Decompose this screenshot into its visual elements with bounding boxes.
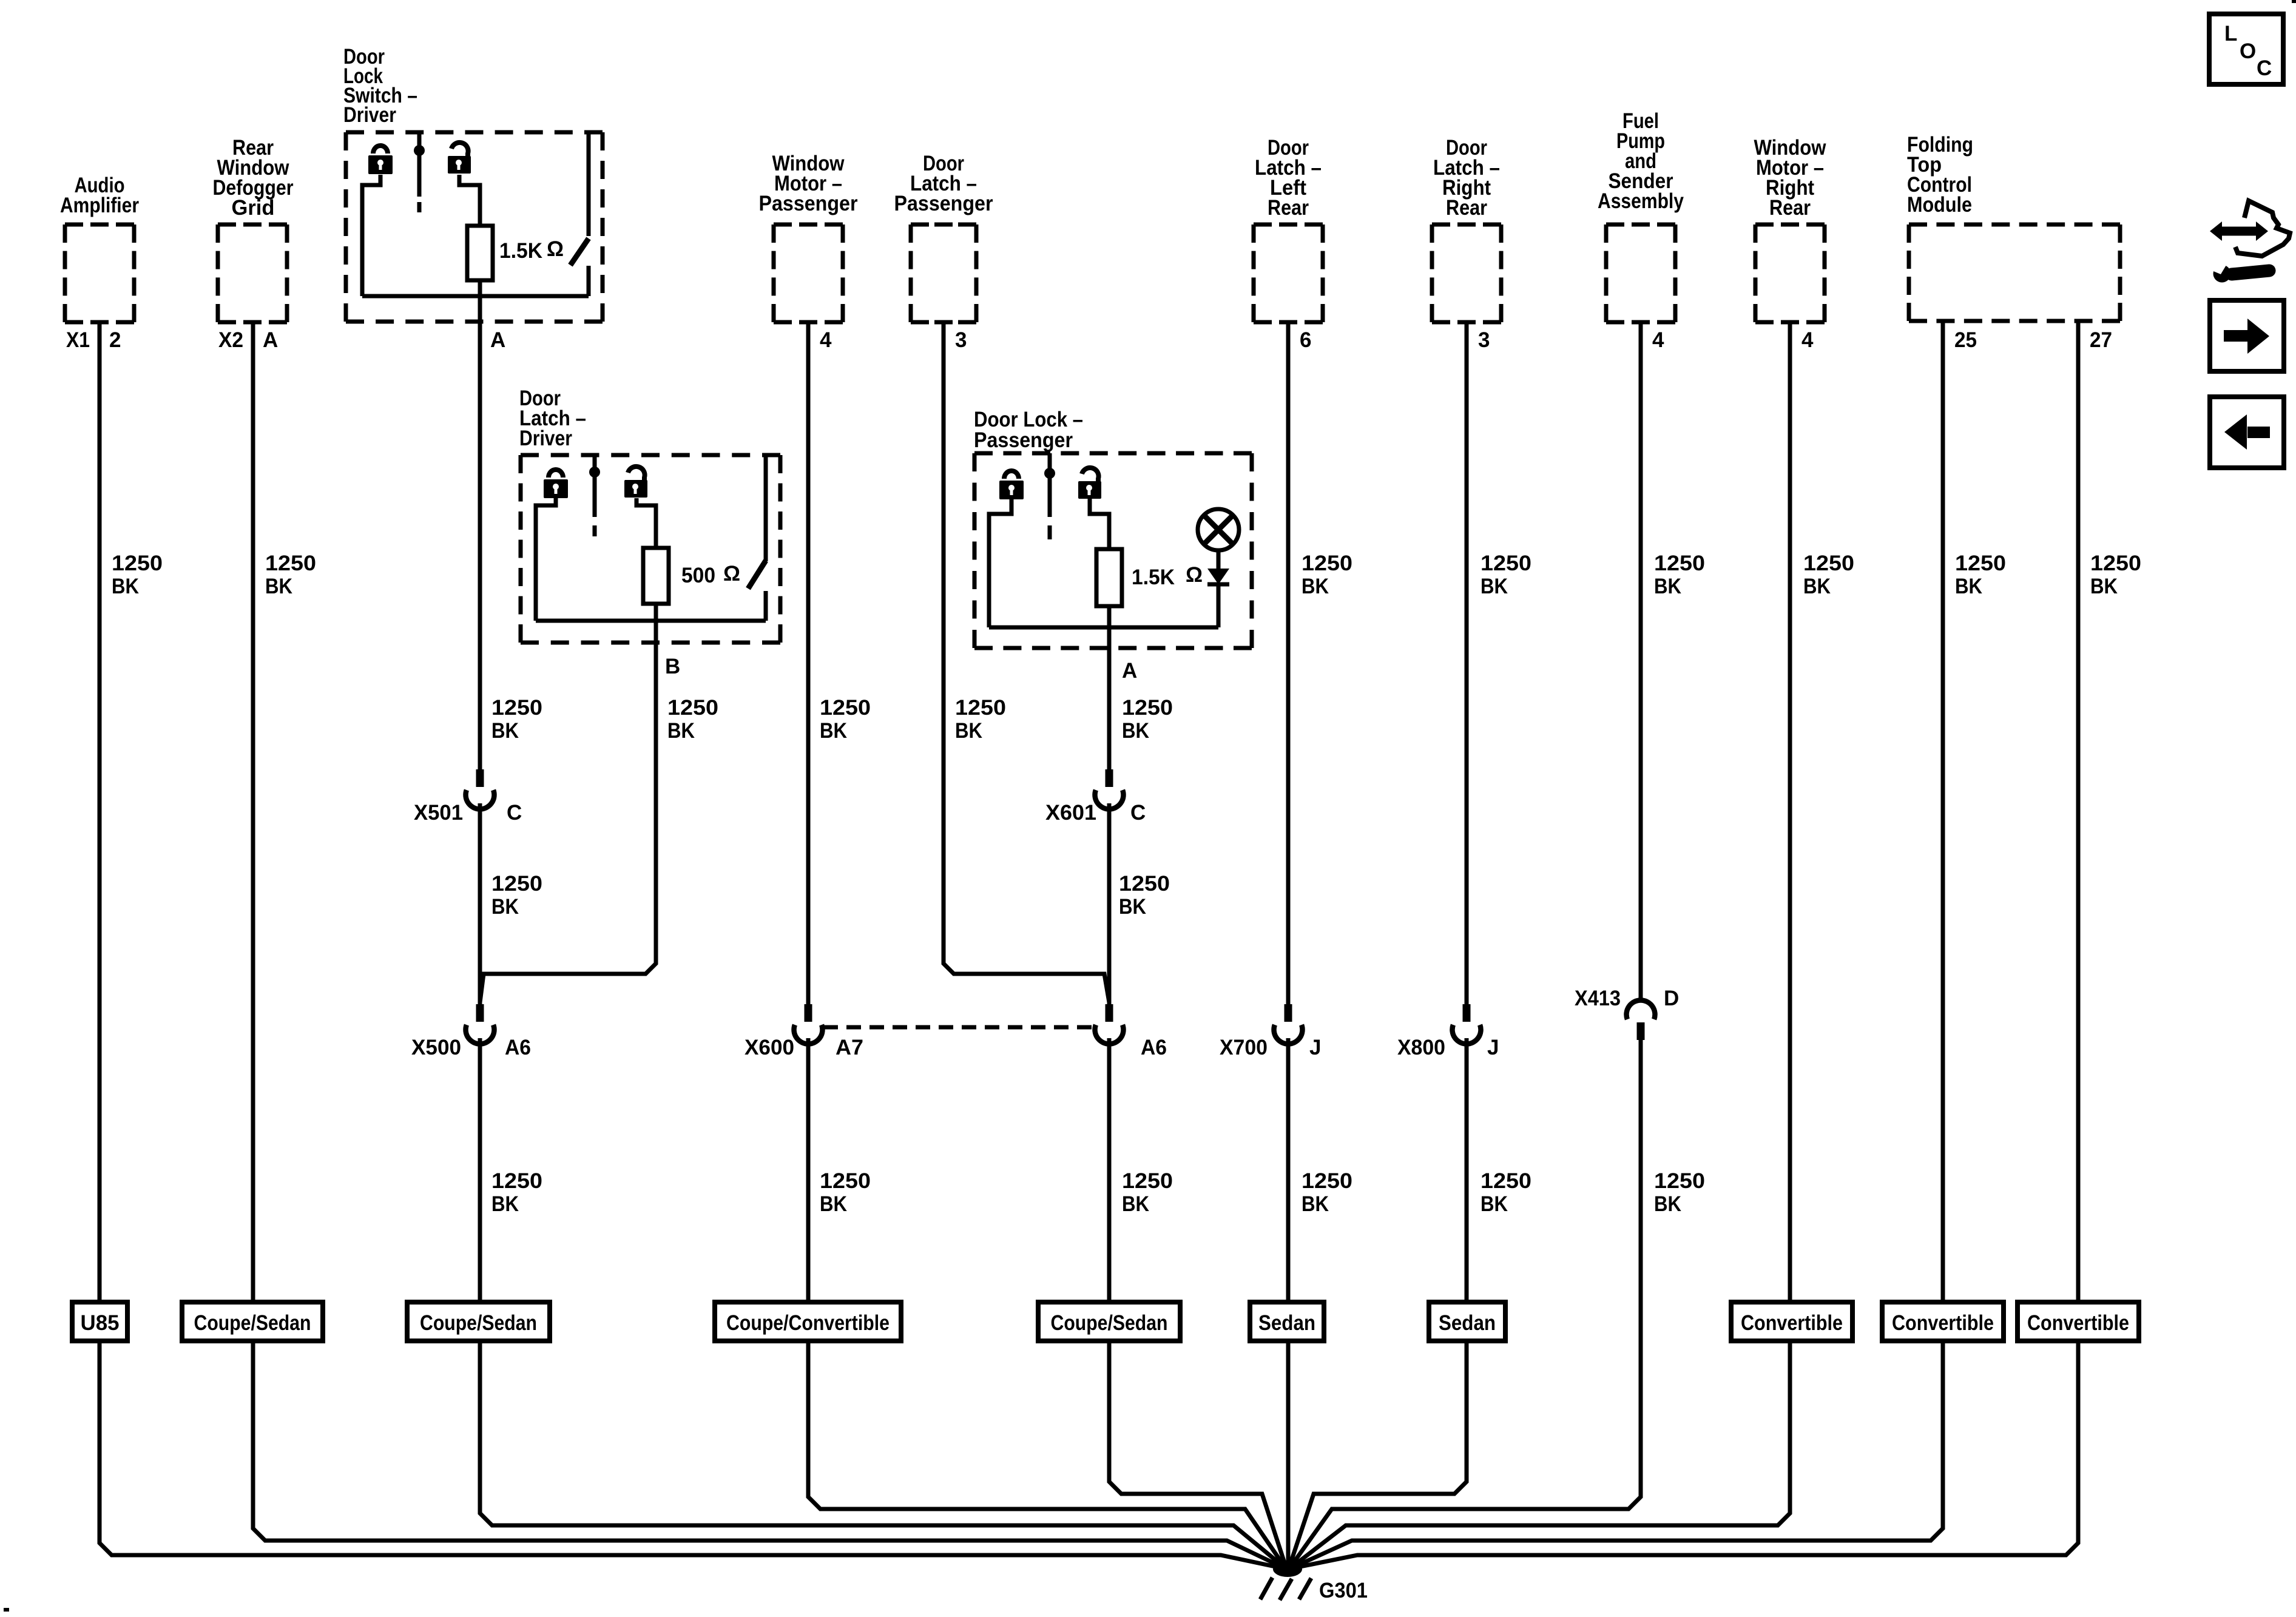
svg-text:Sedan: Sedan bbox=[1439, 1311, 1496, 1335]
inline connector X700 pin J bbox=[1274, 1004, 1303, 1044]
connector box: Fuel Pump and Sender Assembly bbox=[1598, 109, 1684, 322]
svg-text:1250: 1250 bbox=[667, 696, 718, 720]
connector box: Door Latch - Right Rear bbox=[1432, 136, 1501, 322]
connector label X500 A6 bbox=[411, 1036, 531, 1059]
connector label X800 J bbox=[1397, 1036, 1499, 1059]
wire: unlock contact branch to resistor bbox=[1090, 498, 1109, 549]
svg-text:X2: X2 bbox=[218, 328, 243, 352]
resistor 500 ohm bbox=[643, 548, 669, 604]
wire label 1250 BK (below X500) bbox=[491, 1169, 542, 1216]
value label 1.5K ohm bbox=[499, 237, 564, 263]
page corner mark bbox=[4, 1608, 9, 1612]
switch blade (open) bbox=[570, 132, 589, 296]
svg-text:BK: BK bbox=[491, 1192, 519, 1216]
wire label 1250 BK (Door Lock Passenger) bbox=[1122, 696, 1173, 743]
variant box Coupe/Sedan (door lock passenger) bbox=[1038, 1302, 1180, 1341]
svg-text:Coupe/Sedan: Coupe/Sedan bbox=[420, 1311, 537, 1335]
svg-text:BK: BK bbox=[667, 719, 695, 743]
svg-text:U85: U85 bbox=[81, 1311, 120, 1335]
variant box Sedan (door latch left rear) bbox=[1250, 1302, 1324, 1341]
svg-text:27: 27 bbox=[2090, 328, 2112, 352]
wire: Door Latch Right Rear pin 3 through X800 to G301 (1250 BK) bbox=[1465, 322, 1469, 1004]
connector box: Audio Amplifier bbox=[60, 174, 139, 322]
connector label X600 A7 bbox=[745, 1036, 863, 1059]
component box: Door Lock - Passenger bbox=[974, 408, 1252, 648]
svg-text:A: A bbox=[263, 328, 278, 352]
wire: Rear Window Defogger Grid pin A to G301 ground bus (1250 BK) bbox=[253, 322, 1285, 1568]
resistor 1.5K ohm bbox=[1096, 549, 1122, 606]
wire: Door Lock Switch Driver pin A down through X501 and X500 to G301 (1250 BK) bbox=[478, 280, 482, 769]
svg-text:1250: 1250 bbox=[1481, 552, 1531, 575]
svg-text:O: O bbox=[2240, 39, 2256, 63]
connector box: Window Motor - Passenger bbox=[759, 152, 858, 322]
svg-text:3: 3 bbox=[955, 328, 967, 352]
variant box Coupe/Convertible (window motor passenger) bbox=[715, 1302, 901, 1341]
svg-text:BK: BK bbox=[955, 719, 982, 743]
wire: lock contact branch bbox=[536, 498, 556, 621]
svg-text:B: B bbox=[665, 655, 680, 678]
svg-text:X600: X600 bbox=[745, 1036, 794, 1059]
svg-text:1250: 1250 bbox=[2090, 552, 2141, 575]
wire label 1250 BK (below X601) bbox=[1119, 872, 1170, 919]
svg-text:500: 500 bbox=[681, 564, 715, 587]
svg-text:1250: 1250 bbox=[491, 872, 542, 896]
wire: internal bottom bus bbox=[536, 619, 766, 623]
svg-text:Convertible: Convertible bbox=[1892, 1311, 1994, 1335]
svg-text:A6: A6 bbox=[1141, 1036, 1167, 1059]
svg-text:BK: BK bbox=[1302, 575, 1329, 598]
pin label X2 A bbox=[218, 328, 278, 352]
svg-text:X1: X1 bbox=[66, 328, 90, 352]
svg-text:G301: G301 bbox=[1319, 1579, 1368, 1602]
wire label 1250 BK (below X600) bbox=[820, 1169, 871, 1216]
svg-text:Driver: Driver bbox=[343, 103, 396, 127]
svg-text:D: D bbox=[1664, 987, 1679, 1010]
svg-text:3: 3 bbox=[1478, 328, 1490, 352]
svg-text:BK: BK bbox=[2090, 575, 2118, 598]
inline connector X800 pin J bbox=[1452, 1004, 1481, 1044]
svg-text:1250: 1250 bbox=[820, 696, 871, 720]
backward arrow box bbox=[2210, 397, 2284, 468]
svg-text:Ω: Ω bbox=[723, 562, 740, 586]
svg-text:A: A bbox=[490, 328, 505, 352]
svg-text:BK: BK bbox=[1654, 1192, 1681, 1216]
wire: Door Latch Passenger pin 3 joining X601 A6 (1250 BK) bbox=[944, 322, 1109, 1002]
unlock symbol (open padlock) bbox=[448, 143, 471, 174]
svg-text:Ω: Ω bbox=[547, 237, 564, 261]
wire: internal bottom bus bbox=[989, 626, 1218, 630]
variant box Convertible (window motor right rear) bbox=[1731, 1302, 1852, 1341]
wire label 1250 BK (Door Latch Passenger) bbox=[955, 696, 1006, 743]
svg-text:BK: BK bbox=[1119, 895, 1146, 919]
svg-text:Convertible: Convertible bbox=[1741, 1311, 1843, 1335]
switch common stem with junction dot bbox=[589, 455, 600, 536]
wire label 1250 BK (below X501) bbox=[491, 872, 542, 919]
svg-text:BK: BK bbox=[1122, 719, 1149, 743]
svg-text:X700: X700 bbox=[1220, 1036, 1268, 1059]
switch blade (open) bbox=[748, 455, 766, 621]
switch common stem with junction dot bbox=[1044, 453, 1055, 539]
connector label X601 C bbox=[1045, 801, 1146, 825]
connector box: Folding Top Control Module bbox=[1907, 133, 2120, 321]
svg-text:4: 4 bbox=[1801, 328, 1814, 352]
wire label 1250 BK (Folding Top pin 25) bbox=[1955, 552, 2006, 598]
svg-text:Coupe/Convertible: Coupe/Convertible bbox=[726, 1311, 890, 1335]
inline connector X601 pin C bbox=[1095, 769, 1124, 809]
variant box Coupe/Sedan (door lock switch driver) bbox=[407, 1302, 550, 1341]
svg-text:Rear: Rear bbox=[1446, 196, 1487, 220]
wire label 1250 BK (Window Motor Passenger) bbox=[820, 696, 871, 743]
svg-text:C: C bbox=[507, 801, 522, 825]
diode bbox=[1207, 550, 1229, 627]
wire label 1250 BK (Rear Window Defogger Grid) bbox=[265, 552, 316, 598]
inline connector X500 pin A6 bbox=[466, 1004, 495, 1044]
wire label 1250 BK (Folding Top pin 27) bbox=[2090, 552, 2141, 598]
body repair icon: double arrow, panel outline, wrench bbox=[2210, 201, 2290, 283]
svg-text:Rear: Rear bbox=[1769, 196, 1811, 220]
connector label X501 C bbox=[414, 801, 522, 825]
lock symbol (closed padlock) bbox=[999, 471, 1024, 499]
svg-text:Assembly: Assembly bbox=[1598, 189, 1684, 213]
svg-text:X601: X601 bbox=[1045, 801, 1096, 825]
svg-text:Rear: Rear bbox=[1268, 196, 1309, 220]
svg-text:BK: BK bbox=[1481, 575, 1508, 598]
connector box: Rear Window Defogger Grid bbox=[213, 136, 294, 322]
svg-text:1250: 1250 bbox=[1119, 872, 1170, 896]
svg-text:BK: BK bbox=[1122, 1192, 1149, 1216]
inline connector X600 pin A7 bbox=[794, 1004, 822, 1044]
indicator lamp bbox=[1198, 509, 1239, 550]
svg-text:1250: 1250 bbox=[491, 696, 542, 720]
connector label X700 J bbox=[1220, 1036, 1321, 1059]
variant box Sedan (door latch right rear) bbox=[1429, 1302, 1505, 1341]
svg-text:A6: A6 bbox=[505, 1036, 531, 1059]
variant box U85 bbox=[72, 1302, 127, 1341]
variant box Convertible (folding top pin 27) bbox=[2017, 1302, 2139, 1341]
svg-text:Amplifier: Amplifier bbox=[60, 194, 139, 217]
svg-text:Sedan: Sedan bbox=[1258, 1311, 1315, 1335]
wire label 1250 BK (below A6) bbox=[1122, 1169, 1173, 1216]
wire: Window Motor Passenger pin 4 through X600 to G301 (1250 BK) bbox=[806, 322, 811, 1004]
wire: Door Lock Passenger pin A through X601 to G301 (1250 BK) bbox=[1107, 606, 1112, 769]
wire: Audio Amplifier pin 2 to G301 ground bus (1250 BK) bbox=[100, 322, 1284, 1568]
svg-text:BK: BK bbox=[1955, 575, 1982, 598]
pin label X1 2 bbox=[66, 328, 121, 352]
svg-text:J: J bbox=[1309, 1036, 1321, 1059]
unlock symbol (open padlock) bbox=[1078, 468, 1101, 499]
wire label 1250 BK (Door Latch Left Rear) bbox=[1302, 552, 1352, 598]
svg-text:1250: 1250 bbox=[112, 552, 163, 575]
svg-text:BK: BK bbox=[112, 575, 139, 598]
wire label 1250 BK (Door Lock Switch Driver) bbox=[491, 696, 542, 743]
connector box: Door Latch - Left Rear bbox=[1254, 136, 1323, 322]
svg-text:1250: 1250 bbox=[491, 1169, 542, 1193]
svg-text:4: 4 bbox=[820, 328, 832, 352]
svg-text:1.5K: 1.5K bbox=[1132, 565, 1175, 589]
LOC reference box bbox=[2209, 14, 2283, 84]
wire: Folding Top Control Module pin 27 to G301 (1250 BK) bbox=[1291, 322, 2078, 1568]
resistor 1.5K ohm bbox=[467, 226, 493, 280]
inline connector (unnamed) pin A6 bbox=[1095, 1004, 1123, 1044]
svg-text:J: J bbox=[1487, 1036, 1499, 1059]
svg-text:Passenger: Passenger bbox=[894, 192, 993, 215]
svg-text:BK: BK bbox=[820, 719, 847, 743]
svg-text:Grid: Grid bbox=[232, 196, 275, 220]
wire label 1250 BK (below X800) bbox=[1481, 1169, 1531, 1216]
svg-text:1250: 1250 bbox=[1481, 1169, 1531, 1193]
ground splice blob G301 bbox=[1273, 1561, 1302, 1577]
svg-text:1.5K: 1.5K bbox=[499, 239, 542, 263]
ground hatch strokes bbox=[1260, 1578, 1311, 1600]
wire: internal bottom bus bbox=[362, 294, 589, 299]
svg-text:Passenger: Passenger bbox=[974, 428, 1073, 452]
svg-text:BK: BK bbox=[1803, 575, 1831, 598]
inline connector X413 pin D (flipped) bbox=[1627, 1001, 1655, 1040]
wire: unlock contact branch to resistor bbox=[636, 498, 656, 548]
svg-text:Driver: Driver bbox=[519, 427, 572, 450]
component box: Door Lock Switch - Driver bbox=[343, 45, 603, 322]
inline connector X501 pin C bbox=[466, 769, 495, 809]
svg-text:4: 4 bbox=[1652, 328, 1664, 352]
svg-text:1250: 1250 bbox=[955, 696, 1006, 720]
svg-text:Coupe/Sedan: Coupe/Sedan bbox=[1051, 1311, 1168, 1335]
svg-text:25: 25 bbox=[1954, 328, 1977, 352]
wire label 1250 BK (below X700) bbox=[1302, 1169, 1352, 1216]
svg-text:BK: BK bbox=[820, 1192, 847, 1216]
svg-text:X501: X501 bbox=[414, 801, 463, 825]
svg-text:Ω: Ω bbox=[1186, 563, 1203, 587]
svg-text:Coupe/Sedan: Coupe/Sedan bbox=[194, 1311, 311, 1335]
svg-text:Module: Module bbox=[1907, 193, 1972, 217]
lock symbol (closed padlock) bbox=[368, 146, 393, 174]
wire label 1250 BK (Door Latch Driver) bbox=[667, 696, 718, 743]
svg-text:2: 2 bbox=[109, 328, 121, 352]
svg-text:BK: BK bbox=[265, 575, 292, 598]
wire label 1250 BK (below X413) bbox=[1654, 1169, 1705, 1216]
variant box Convertible (folding top pin 25) bbox=[1882, 1302, 2004, 1341]
wire: Window Motor Right Rear pin 4 to G301 (1250 BK) bbox=[1290, 322, 1790, 1568]
wire label 1250 BK (Window Motor Right Rear) bbox=[1803, 552, 1854, 598]
wire label 1250 BK (Fuel Pump) bbox=[1654, 552, 1705, 598]
unlock symbol (open padlock) bbox=[624, 467, 647, 498]
svg-text:A7: A7 bbox=[836, 1036, 863, 1059]
svg-text:Convertible: Convertible bbox=[2027, 1311, 2129, 1335]
value label 500 ohm bbox=[681, 562, 740, 587]
svg-text:BK: BK bbox=[1481, 1192, 1508, 1216]
wire: Door Latch Left Rear pin 6 through X700 straight to G301 (1250 BK) bbox=[1286, 322, 1291, 1004]
svg-text:BK: BK bbox=[491, 895, 519, 919]
svg-text:C: C bbox=[1130, 801, 1146, 825]
svg-text:X500: X500 bbox=[411, 1036, 461, 1059]
switch common stem with junction dot bbox=[414, 132, 425, 212]
svg-text:Passenger: Passenger bbox=[759, 192, 858, 215]
variant box Coupe/Sedan (defogger) bbox=[182, 1302, 323, 1341]
svg-text:1250: 1250 bbox=[820, 1169, 871, 1193]
svg-text:A: A bbox=[1122, 659, 1137, 683]
svg-text:6: 6 bbox=[1300, 328, 1311, 352]
svg-text:1250: 1250 bbox=[1803, 552, 1854, 575]
svg-text:BK: BK bbox=[1654, 575, 1681, 598]
value label 1.5K ohm bbox=[1132, 563, 1203, 589]
svg-text:X800: X800 bbox=[1397, 1036, 1445, 1059]
svg-text:1250: 1250 bbox=[265, 552, 316, 575]
dashed link wire between X600 and A6 bbox=[823, 1025, 1093, 1030]
page corner speck top right bbox=[2292, 0, 2296, 3]
wire label 1250 BK (Audio Amplifier) bbox=[112, 552, 163, 598]
svg-text:1250: 1250 bbox=[1302, 552, 1352, 575]
svg-text:1250: 1250 bbox=[1654, 1169, 1705, 1193]
svg-text:1250: 1250 bbox=[1654, 552, 1705, 575]
wire label 1250 BK (Door Latch Right Rear) bbox=[1481, 552, 1531, 598]
svg-text:L: L bbox=[2224, 22, 2237, 46]
svg-text:1250: 1250 bbox=[1122, 1169, 1173, 1193]
forward arrow box bbox=[2210, 300, 2284, 371]
connector label X413 D bbox=[1575, 987, 1679, 1010]
svg-text:BK: BK bbox=[1302, 1192, 1329, 1216]
svg-text:C: C bbox=[2257, 56, 2272, 80]
wire: Fuel Pump and Sender Assembly pin 4 through X413 to G301 (1250 BK) bbox=[1639, 322, 1643, 1001]
wire: Door Latch Driver pin B joining X500 (1250 BK) bbox=[480, 604, 656, 1002]
svg-text:BK: BK bbox=[491, 719, 519, 743]
wire: Folding Top Control Module pin 25 to G301 (1250 BK) bbox=[1291, 322, 1943, 1568]
wire: unlock contact branch to resistor bbox=[459, 175, 480, 226]
connector box: Window Motor - Right Rear bbox=[1754, 136, 1827, 322]
svg-text:1250: 1250 bbox=[1122, 696, 1173, 720]
wire: lock contact branch bbox=[989, 498, 1011, 627]
svg-text:1250: 1250 bbox=[1302, 1169, 1352, 1193]
wire: lock contact branch bbox=[362, 175, 380, 296]
svg-text:1250: 1250 bbox=[1955, 552, 2006, 575]
lock symbol (closed padlock) bbox=[544, 470, 568, 498]
connector box: Door Latch - Passenger bbox=[894, 152, 993, 322]
svg-text:X413: X413 bbox=[1575, 987, 1621, 1010]
component box: Door Latch - Driver bbox=[519, 387, 780, 643]
